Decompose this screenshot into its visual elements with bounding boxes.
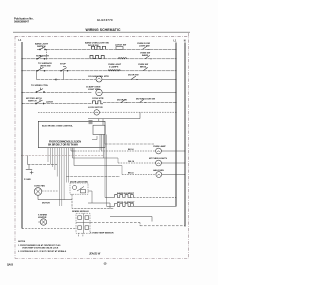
wire EOC right vert b [104, 135, 106, 145]
wire branch mid2 [74, 165, 122, 167]
switch S10 row5 [35, 99, 44, 104]
svg-text:WIRING SCHEMATIC: WIRING SCHEMATIC [86, 28, 122, 32]
svg-text:IGNITER: IGNITER [38, 217, 47, 219]
spark module dashed box [76, 213, 90, 233]
wire lamp1 right [161, 150, 185, 152]
svg-text:MTR: MTR [104, 76, 109, 78]
latch motor circle [72, 185, 76, 189]
wire broil element left [107, 205, 115, 207]
wire M4 down right [38, 195, 72, 199]
wire row7 drop b [102, 119, 104, 126]
spark module center bus [76, 213, 90, 233]
wire row5 left [22, 103, 92, 105]
wire row7 jog up [139, 112, 141, 118]
EOC sub-box pins [100, 135, 107, 207]
ground wire drop [28, 165, 30, 170]
lamp coil row3 [108, 70, 121, 71]
wire igniter dashed [22, 228, 77, 230]
switch S4 row2 [145, 55, 152, 58]
bake element coil [115, 195, 134, 198]
wire EOC right vert a [101, 135, 103, 151]
EOC pin corner [92, 136, 97, 140]
ground wire stem from chassis [27, 156, 29, 165]
switch contacts row1 humps [92, 46, 106, 49]
cabinet border left [14, 36, 16, 258]
broil element coil [115, 204, 134, 207]
svg-text:LOCK MOTOR: LOCK MOTOR [88, 107, 103, 109]
lamp L1 [156, 148, 162, 154]
lamp L1 filament [157, 151, 160, 152]
wire row4b left [22, 92, 92, 94]
svg-text:MOTOR: MOTOR [42, 202, 50, 204]
svg-text:CONV MTR: CONV MTR [92, 98, 104, 100]
switch S2 row1 [143, 46, 150, 49]
wire spark aux [110, 217, 152, 222]
lamp L2 filament [157, 163, 160, 164]
row 4a labels [88, 75, 139, 79]
switch S6 row3 [60, 67, 68, 72]
wire N rail [184, 43, 186, 227]
spark module terminal c [78, 226, 82, 230]
motor M3 oven light [96, 89, 102, 95]
svg-text:UNITS SW: UNITS SW [40, 66, 51, 68]
wire branch low [66, 176, 120, 178]
wire branch mid [73, 157, 119, 159]
wire lamp1 left dashed [75, 150, 156, 152]
latch switch box row1 [116, 47, 123, 50]
svg-text:2 LAMPS: 2 LAMPS [109, 65, 119, 68]
switch S11 row5 [121, 99, 128, 102]
switch S8 row4b [36, 88, 45, 93]
wire row3 [22, 70, 176, 72]
cabinet border right [188, 33, 190, 259]
svg-text:-12-: -12- [103, 263, 107, 265]
harness corner to lamp2 [72, 148, 74, 158]
igniter electrode [40, 219, 46, 225]
svg-text:ELECTRONIC OVEN CONTROL: ELECTRONIC OVEN CONTROL [42, 125, 74, 127]
lamp L3 filament [157, 174, 160, 175]
svg-text:BK BR DB LT OR RD TN WH: BK BR DB LT OR RD TN WH [48, 143, 78, 146]
svg-text:LIGHT SW: LIGHT SW [139, 45, 150, 47]
wire latch stub [88, 191, 92, 203]
wire row3 to row4a drop [36, 71, 38, 80]
motor M3 lock [94, 110, 99, 115]
EOC connector marks [89, 121, 93, 124]
switch S7 row3 [143, 67, 150, 70]
ground symbol [26, 169, 34, 174]
junction row3-bus [21, 70, 22, 71]
svg-text:LATCH SW: LATCH SW [115, 44, 127, 47]
coil K1 row2 [118, 58, 127, 59]
wire left L1 bus [21, 42, 23, 229]
header rule [13, 31, 190, 33]
svg-text:DOOR LK: DOOR LK [117, 99, 127, 101]
wire element feed a [105, 197, 115, 199]
junction bus-chassis [21, 155, 22, 156]
svg-text:P-GND: P-GND [24, 179, 31, 181]
motor M3 mark [95, 111, 98, 114]
wire latch right [88, 203, 110, 209]
harness corner to lamp3 [73, 148, 75, 166]
svg-text:OVEN LAMP: OVEN LAMP [153, 145, 166, 148]
row 4b labels [31, 85, 104, 100]
switch S12 row5 [140, 99, 147, 102]
latch switch lever [77, 187, 84, 192]
wire spark to N b [140, 225, 185, 228]
wire row6 dashed right [100, 111, 176, 113]
svg-text:GLGF377C: GLGF377C [97, 18, 113, 22]
svg-text:STOP: STOP [60, 63, 66, 65]
junction row2-bus [21, 58, 22, 59]
wire jog [139, 223, 141, 226]
svg-text:DOOR SW: DOOR SW [128, 75, 139, 77]
switch S1 row1 [37, 46, 47, 50]
svg-text:N: N [184, 40, 186, 43]
svg-text:SWITCH: SWITCH [28, 101, 37, 103]
wire drop row1 to row2 [46, 49, 48, 59]
wire row5 right [103, 102, 176, 104]
wire row4a right [102, 79, 176, 81]
row 5 labels [26, 97, 156, 103]
chassis dashed line [22, 155, 104, 157]
row 3 labels [38, 62, 149, 69]
ribbon harness wires [48, 148, 69, 206]
svg-text:MOTOR DOOR SW: MOTOR DOOR SW [136, 99, 156, 101]
wire broil element right to L1 rail end [130, 205, 176, 207]
door latch assembly dashed box [70, 183, 88, 194]
svg-text:CONV FAN: CONV FAN [34, 185, 45, 188]
wire lamp2 left dashed [118, 162, 156, 164]
header publication number text [14, 17, 34, 24]
switch S9 row4a right [131, 76, 138, 79]
svg-text:X OVEN TEMP SENSOR: X OVEN TEMP SENSOR [90, 233, 114, 235]
wire row6 dashed left [38, 112, 94, 114]
wire row7 [88, 118, 140, 120]
junction mark row4a [55, 78, 58, 81]
wire latch down [72, 194, 114, 208]
svg-text:2. CONTINUOUS HOT - IF NOT CIR: 2. CONTINUOUS HOT - IF NOT CIRCUIT AT SP… [18, 250, 67, 253]
svg-text:OVEN TEMP 2 NOTE AND VALVE LOC: OVEN TEMP 2 NOTE AND VALVE LOCK [22, 247, 59, 250]
row 1 labels [35, 41, 151, 48]
EOC relay sub-box [93, 125, 105, 134]
svg-text:LATCH: LATCH [46, 100, 53, 103]
igniter stub [38, 221, 40, 223]
wire lamp2 right [161, 162, 185, 164]
wire M4 right dashed [42, 190, 58, 192]
switch contacts row2 humps [90, 56, 104, 59]
wire jog lamp3 [121, 166, 123, 175]
wire jog lamp2 [117, 158, 119, 163]
wire row7 drop a [98, 119, 100, 122]
svg-text:5995386847: 5995386847 [14, 20, 29, 24]
svg-text:TO SPEED CTRL: TO SPEED CTRL [31, 85, 49, 87]
row 2 labels [36, 53, 151, 66]
EOC electronic oven control box [38, 121, 105, 147]
latch sub-box b [81, 190, 86, 193]
wire EOC right out [105, 143, 154, 145]
igniter X mark [42, 220, 46, 224]
wire row1 [46, 48, 176, 50]
spark module terminal a [78, 216, 82, 220]
motor M2 cooling fan [96, 76, 102, 82]
corner bus-row5 [22, 93, 23, 104]
svg-text:QA05: QA05 [7, 263, 14, 266]
motor M4 convection fan [34, 188, 42, 196]
svg-text:JEA023 W: JEA023 W [89, 254, 101, 256]
motor M3 mark [97, 91, 100, 94]
switch S3 row2 [36, 55, 45, 59]
ground wire horizontal [28, 164, 58, 166]
wire bake element right [130, 197, 176, 199]
igniter label [38, 213, 48, 219]
junction row2 drop [46, 58, 47, 59]
spark module terminal b [85, 216, 89, 220]
svg-text:SPARK MODULE: SPARK MODULE [72, 210, 89, 213]
wire row4b right [102, 92, 176, 94]
junction row4b-bus [21, 92, 22, 93]
wire spark to N a [90, 222, 140, 224]
harness corner to lamp1 [71, 148, 75, 151]
spark module terminal d [85, 226, 89, 230]
junction dots on L1 rail [175, 49, 176, 198]
switch contacts row5 humps [93, 101, 104, 104]
wire row2 [22, 58, 176, 60]
wire drop row3 [63, 71, 65, 80]
lamp L2 [156, 160, 162, 166]
cabinet border top [15, 35, 189, 37]
wire lamp3 left dashed [122, 174, 156, 176]
lamp L3 [156, 172, 162, 178]
svg-text:1. FRONT BURNER 9.5K AT CENTER: 1. FRONT BURNER 9.5K AT CENTER BT 70-80 [18, 244, 60, 247]
switch S5 row3 [36, 67, 45, 71]
spark module stubs [79, 233, 83, 237]
cabinet border bottom [15, 258, 189, 260]
svg-text:NOTES: NOTES [18, 241, 26, 243]
motor M2 mark [98, 78, 101, 81]
wire row4a [37, 79, 97, 81]
motor M4 cross mark [36, 189, 41, 194]
junction dots on N rail [184, 150, 185, 175]
wire L1 rail [175, 43, 177, 207]
wire lamp3 right [162, 174, 185, 176]
